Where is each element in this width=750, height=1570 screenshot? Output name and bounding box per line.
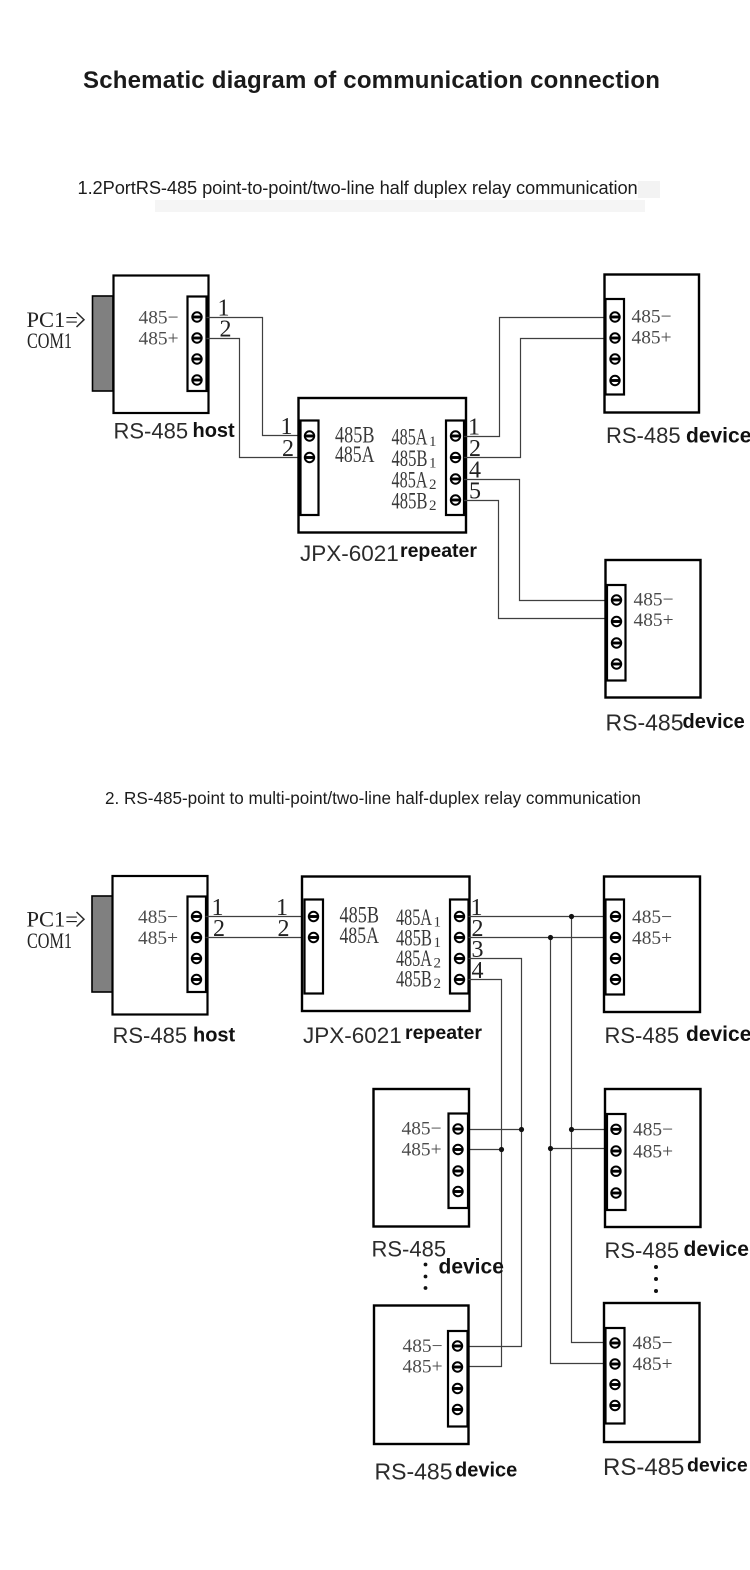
- svg-text:2: 2: [429, 477, 437, 493]
- RS-485 device B box (diagram 1 bottom right): [606, 560, 701, 698]
- RS-485 host box (diagram 2): [113, 876, 208, 1015]
- junction bus D / device D 485+: [499, 1147, 504, 1152]
- svg-text:RS-485: RS-485: [606, 423, 681, 448]
- svg-text:1.2PortRS-485 point-to-point/t: 1.2PortRS-485 point-to-point/two-line ha…: [78, 177, 638, 198]
- faint highlight under section 1 heading: [155, 200, 645, 212]
- svg-text:Schematic diagram of communica: Schematic diagram of communication conne…: [83, 67, 660, 94]
- svg-text:repeater: repeater: [400, 540, 477, 562]
- svg-text:RS-485: RS-485: [113, 1023, 188, 1048]
- svg-text:485−: 485−: [403, 1336, 443, 1357]
- device B terminal strip: [607, 585, 626, 681]
- svg-text:device: device: [455, 1460, 517, 1482]
- svg-text:485A: 485A: [335, 442, 375, 467]
- svg-text:device: device: [686, 425, 750, 448]
- svg-text:485−: 485−: [138, 907, 178, 928]
- RS-485 host box (diagram 1): [114, 276, 209, 414]
- device A terminal strip: [606, 299, 625, 395]
- wire repeater2 2 to device C 485+ (bus B feed): [469, 937, 605, 939]
- svg-text:JPX-6021: JPX-6021: [300, 541, 399, 566]
- svg-text:device: device: [686, 1023, 750, 1046]
- RS-485 device F box (diagram 2 bottom right): [604, 1303, 700, 1442]
- ellipsis dots (right column, more devices): [654, 1265, 658, 1269]
- svg-text:repeater: repeater: [405, 1022, 482, 1044]
- junction bus A top: [569, 914, 574, 919]
- repeater left terminal strip, 2 terminals: [301, 421, 319, 516]
- svg-text:485+: 485+: [634, 610, 674, 631]
- svg-text:485+: 485+: [403, 1357, 443, 1378]
- svg-text:485A: 485A: [340, 923, 380, 948]
- svg-text:2: 2: [429, 498, 437, 514]
- svg-text:2: 2: [282, 436, 294, 462]
- wire repeater 1 to device A 485-: [464, 318, 606, 437]
- svg-text:485+: 485+: [633, 1354, 673, 1375]
- wire repeater 2 to device A 485+: [464, 339, 606, 458]
- wire bus A to device G 485-: [572, 1129, 606, 1131]
- svg-text:host: host: [193, 420, 236, 442]
- svg-text:485+: 485+: [139, 329, 179, 350]
- RS-485 device G box (diagram 2 middle right): [605, 1089, 701, 1227]
- device F terminal strip: [606, 1328, 625, 1424]
- ellipsis dots (left column, more devices): [424, 1263, 428, 1267]
- svg-text:RS-485: RS-485: [606, 710, 684, 736]
- repeater right terminal strip, 4 terminals: [446, 421, 464, 516]
- svg-text:device: device: [684, 1238, 749, 1261]
- svg-text:2: 2: [434, 956, 442, 972]
- svg-text:device: device: [439, 1256, 504, 1279]
- svg-text:RS-485: RS-485: [372, 1237, 447, 1262]
- wire bus B to device G 485+: [551, 1148, 606, 1150]
- junction bus B / device G 485+: [548, 1146, 553, 1151]
- svg-text:1: 1: [434, 915, 442, 931]
- svg-text:1: 1: [429, 434, 437, 450]
- svg-text:host: host: [193, 1025, 236, 1047]
- svg-text:RS-485: RS-485: [605, 1238, 680, 1263]
- JPX-6021 repeater box (diagram 2): [302, 877, 470, 1012]
- svg-text:485−: 485−: [632, 907, 672, 928]
- RS-485 device E box (diagram 2 bottom left): [374, 1306, 469, 1445]
- wire device D 485+ to bus D: [469, 1149, 502, 1151]
- PC COM1 connector (gray): [93, 296, 114, 391]
- svg-text:485+: 485+: [632, 328, 672, 349]
- junction bus B top: [548, 935, 553, 940]
- svg-text:485−: 485−: [402, 1119, 442, 1140]
- svg-text:485B: 485B: [392, 489, 428, 515]
- junction bus A / device G 485-: [569, 1127, 574, 1132]
- RS-485 device D box (diagram 2 middle left): [374, 1089, 470, 1227]
- device D terminal strip (right side): [449, 1114, 469, 1209]
- svg-text:JPX-6021: JPX-6021: [303, 1023, 402, 1048]
- svg-text:485−: 485−: [633, 1333, 673, 1354]
- junction bus C / device D 485-: [519, 1127, 524, 1132]
- svg-text:1: 1: [434, 935, 442, 951]
- host2 terminal strip: [188, 897, 207, 993]
- svg-text:COM1: COM1: [27, 328, 72, 353]
- bus A vertical 485A1 down to device F: [572, 917, 606, 1343]
- JPX-6021 repeater box (diagram 1): [299, 398, 467, 533]
- RS-485 device A box (diagram 1 top right): [605, 275, 700, 413]
- PC1 arrow bracket: [77, 313, 85, 328]
- RS-485 device C box (diagram 2 top right): [604, 877, 700, 1013]
- svg-text:485+: 485+: [402, 1140, 442, 1161]
- svg-text:device: device: [687, 1455, 748, 1477]
- device G terminal strip: [607, 1114, 626, 1210]
- device E terminal strip (right side): [448, 1331, 468, 1427]
- wire host 1 to repeater 1: [207, 318, 301, 436]
- svg-text:2: 2: [278, 916, 290, 942]
- svg-text:485−: 485−: [634, 590, 674, 611]
- repeater2 left terminal strip: [305, 900, 324, 994]
- svg-text:RS-485: RS-485: [375, 1459, 453, 1485]
- svg-text:device: device: [683, 711, 745, 733]
- PC COM1 connector gray (diagram 2): [92, 896, 113, 992]
- wire repeater 4 to device B 485-: [464, 480, 607, 601]
- wire host2 2 to repeater2 2: [206, 937, 305, 939]
- svg-text:485+: 485+: [633, 1142, 673, 1163]
- wire host2 1 to repeater2 1: [206, 916, 305, 918]
- svg-text:RS-485: RS-485: [114, 419, 189, 444]
- wire repeater2 1 to device C 485- (bus A feed): [469, 916, 605, 918]
- wire device D 485- to bus C: [469, 1129, 522, 1131]
- bus B vertical 485B1 down to device F: [551, 938, 606, 1364]
- device C terminal strip: [606, 900, 625, 995]
- wire repeater2 4 bus D down to device E 485+: [468, 980, 502, 1367]
- svg-text:2: 2: [434, 976, 442, 992]
- svg-text:485−: 485−: [139, 308, 179, 329]
- repeater2 right terminal strip: [450, 900, 469, 994]
- svg-text:RS-485: RS-485: [603, 1454, 684, 1481]
- wire repeater2 3 bus C down to device E 485-: [468, 959, 522, 1347]
- svg-text:485−: 485−: [633, 1120, 673, 1141]
- PC1 arrow bracket (diagram 2): [77, 912, 85, 927]
- wire repeater 5 to device B 485+: [464, 501, 607, 619]
- svg-text:485B: 485B: [396, 967, 432, 993]
- svg-text:2. RS-485-point to multi-point: 2. RS-485-point to multi-point/two-line …: [105, 789, 641, 808]
- svg-text:COM1: COM1: [27, 928, 72, 953]
- svg-text:485−: 485−: [632, 307, 672, 328]
- svg-text:485+: 485+: [632, 928, 672, 949]
- host terminal strip, 4 screw terminals: [188, 297, 207, 392]
- svg-text:485+: 485+: [138, 928, 178, 949]
- svg-text:1: 1: [429, 456, 437, 472]
- wire host 2 to repeater 2: [207, 339, 301, 458]
- svg-text:RS-485: RS-485: [605, 1023, 680, 1048]
